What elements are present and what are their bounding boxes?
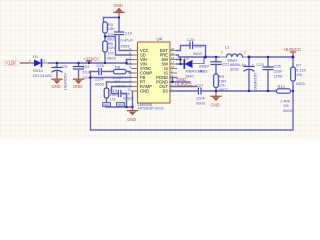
wire VIN jog — [126, 60, 128, 65]
resistor R6 — [103, 41, 117, 61]
capacitor C24 — [74, 63, 92, 80]
resistor R10 — [277, 84, 293, 113]
U4 left pin numbers — [128, 47, 132, 92]
capacitor C25 — [91, 63, 105, 87]
capacitor C27 — [196, 83, 206, 105]
wire C20 to SW — [193, 46, 206, 58]
resistor R7 — [291, 57, 307, 91]
svg-text:C19: C19 — [125, 30, 133, 35]
svg-text:GND: GND — [73, 84, 82, 89]
svg-text:0603: 0603 — [107, 55, 117, 60]
svg-text:17: 17 — [171, 60, 175, 64]
junction C22/rail — [248, 56, 251, 59]
junction SW pin 2 — [179, 63, 181, 65]
svg-text:1%: 1% — [296, 72, 302, 77]
wire RT — [107, 82, 132, 88]
wire R3-R6 — [104, 33, 106, 41]
IC U4 LM5005 — [138, 37, 171, 111]
junction GND pin — [131, 106, 133, 108]
port +12V — [5, 61, 28, 66]
svg-text:SS: SS — [163, 89, 169, 94]
label box 0603 (R14) — [103, 103, 111, 108]
wire C28 to gnd bus — [121, 94, 127, 108]
svg-text:10: 10 — [128, 87, 132, 91]
svg-text:L1: L1 — [225, 45, 230, 50]
svg-text:SMC: SMC — [186, 73, 195, 78]
wire SW pins — [177, 59, 181, 61]
resistor R3 — [103, 22, 117, 42]
diode D1 — [29, 54, 53, 78]
svg-text:R8: R8 — [115, 64, 121, 69]
U4 left pin stubs — [132, 51, 138, 92]
wire gnd top — [104, 17, 120, 19]
svg-text:3632: 3632 — [230, 66, 240, 71]
wire RAMP — [112, 87, 132, 94]
svg-text:0603: 0603 — [95, 82, 105, 87]
svg-text:C23: C23 — [60, 64, 68, 69]
wire GND pin — [132, 91, 134, 107]
svg-text:0603: 0603 — [296, 81, 306, 86]
U4 right pin numbers — [171, 47, 175, 92]
svg-text:0603: 0603 — [196, 100, 206, 105]
ground (top) — [114, 3, 125, 18]
junction PGND tie — [171, 81, 173, 83]
svg-text:1206: 1206 — [274, 74, 284, 79]
wire R9 bottom — [215, 88, 217, 92]
ground — [52, 76, 63, 89]
inductor L1 — [219, 45, 249, 72]
svg-text:0603: 0603 — [193, 51, 203, 56]
junction C24/rail — [77, 62, 79, 64]
wire BST — [177, 46, 191, 51]
U4 right pin stubs — [170, 51, 177, 92]
ground (R9) — [211, 91, 222, 108]
junction +12VCC/rail — [88, 62, 90, 64]
junction C22/GND bus — [248, 90, 250, 92]
svg-text:U4: U4 — [157, 37, 163, 42]
svg-text:0603: 0603 — [283, 108, 293, 113]
svg-text:100uF/16V: 100uF/16V — [253, 72, 258, 92]
junction R3/R6/SD — [104, 35, 106, 37]
junction C21/SW — [215, 56, 217, 58]
junction R7/rail — [292, 56, 295, 59]
svg-text:C22: C22 — [257, 62, 265, 67]
svg-text:+12V: +12V — [6, 61, 16, 66]
resistor R14 — [104, 88, 117, 102]
svg-text:D2: D2 — [184, 55, 190, 60]
svg-text:GND: GND — [52, 84, 61, 89]
wire PRE/SW rail — [177, 55, 220, 57]
svg-text:10K: 10K — [108, 45, 115, 50]
svg-text:20: 20 — [171, 47, 175, 51]
svg-text:0.47uF: 0.47uF — [121, 38, 134, 43]
svg-text:10uF/25V: 10uF/25V — [63, 73, 68, 91]
svg-text:1: 1 — [221, 50, 223, 54]
resistor R8 — [113, 64, 127, 88]
wire SS — [170, 90, 198, 92]
svg-text:D1: D1 — [33, 54, 39, 59]
wire R6 bottom — [104, 52, 106, 63]
wire bottom gnd — [107, 106, 133, 108]
wire SD net — [105, 37, 132, 56]
power +5.0VCC — [283, 47, 301, 57]
wire FB vertical — [91, 72, 294, 131]
capacitor C23 — [52, 63, 68, 90]
capacitor C21 — [199, 57, 231, 74]
junction SW pin 1 — [179, 58, 181, 60]
svg-text:18: 18 — [171, 56, 175, 60]
svg-text:GND: GND — [127, 117, 136, 122]
junction R6/rail — [104, 62, 106, 64]
svg-text:C24: C24 — [82, 64, 90, 69]
svg-text:HTSSOP-20-D: HTSSOP-20-D — [138, 106, 164, 111]
label box 0603 (C28) — [117, 103, 125, 108]
capacitor C26 — [263, 57, 283, 91]
junction FB tee — [89, 76, 91, 78]
junction SW node — [204, 56, 207, 59]
svg-text:16: 16 — [171, 65, 175, 69]
wire C25-R8 — [101, 71, 113, 73]
svg-text:GND: GND — [211, 103, 220, 108]
junction C23/rail — [56, 62, 58, 64]
svg-text:GND: GND — [140, 89, 149, 94]
junction R10/R7 tap — [292, 90, 294, 92]
wire R14 bottom — [106, 98, 108, 107]
wire — [27, 62, 34, 64]
svg-text:1: 1 — [29, 59, 31, 63]
svg-text:C20: C20 — [187, 37, 195, 42]
svg-text:2: 2 — [244, 50, 246, 54]
wire R8 to COMP — [126, 72, 132, 74]
svg-text:2: 2 — [44, 59, 46, 63]
svg-text:C25: C25 — [97, 63, 105, 68]
resistor R9 — [214, 74, 229, 92]
junction VIN jog — [125, 62, 127, 64]
svg-text:C27: C27 — [196, 83, 204, 88]
net label GND (PGND) — [170, 77, 190, 82]
ground — [73, 76, 84, 89]
junction C28/GND wire — [125, 106, 127, 108]
svg-text:R10: R10 — [278, 84, 286, 89]
capacitor C20 — [187, 37, 204, 56]
net label +5.0VCC (OUT) — [170, 82, 197, 87]
wire gnd bus — [201, 90, 277, 92]
wire main rail — [49, 62, 127, 64]
junction GND/C19 — [118, 16, 120, 18]
svg-text:DO-214AC: DO-214AC — [33, 73, 53, 78]
power +12VCC — [84, 56, 100, 63]
ground (below IC) — [127, 107, 138, 122]
wire output rail — [249, 56, 293, 58]
svg-text:+5.0VCC: +5.0VCC — [175, 82, 193, 87]
svg-text:0603: 0603 — [199, 69, 209, 74]
capacitor C19 — [115, 30, 134, 48]
capacitor C22 — [244, 57, 265, 92]
wire R10 right — [291, 90, 294, 92]
junction C26/GND bus — [267, 90, 269, 92]
svg-text:+5.0VCC: +5.0VCC — [283, 47, 301, 52]
svg-text:GND: GND — [114, 3, 123, 8]
diode D2 — [181, 55, 205, 78]
capacitor C28 — [118, 91, 134, 101]
svg-text:19: 19 — [171, 51, 175, 55]
svg-text:1%: 1% — [110, 97, 116, 102]
junction R9/GND bus — [215, 90, 217, 92]
wire C19 to VCC — [119, 35, 132, 51]
junction C26/rail — [267, 56, 269, 58]
wire FB — [91, 77, 132, 79]
